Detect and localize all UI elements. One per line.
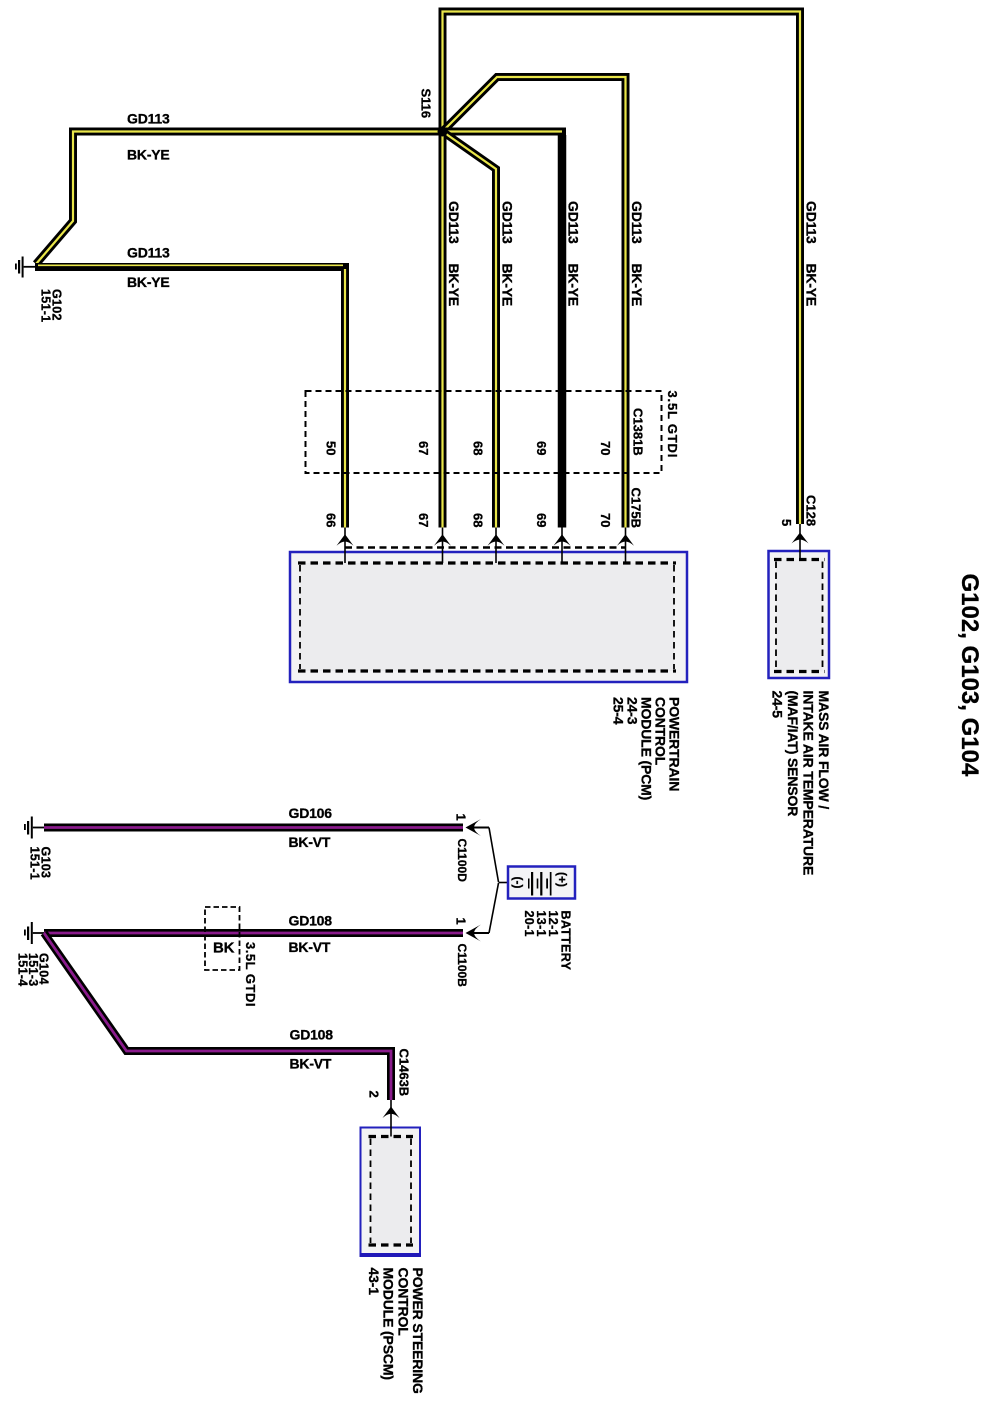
label G103 151-1 [28,847,53,880]
svg-text:(+): (+) [555,872,569,887]
label POWERTRAIN CONTROL MODULE (PCM) 24-3 25-4 [611,697,683,800]
svg-text:GD113: GD113 [446,201,462,244]
label G104 151-3 151-4 [16,953,51,986]
PSCM module box [360,1128,421,1257]
PCM lead pin 69 [561,528,563,564]
svg-text:3.5L GTDI: 3.5L GTDI [243,942,258,1007]
PCM lead pin 68 [495,528,497,564]
PCM lead pin 67 [442,528,444,564]
svg-text:BK-YE: BK-YE [566,264,582,307]
wire GD106 from G103 to battery C1100D [44,824,463,832]
arrow into PCM pin 70 [617,534,634,546]
svg-text:(MAF/IAT) SENSOR: (MAF/IAT) SENSOR [785,691,801,817]
arrow into PSCM pin 2 [383,1107,400,1119]
wire GD113 from S116 down to C1381B pin 67 [439,132,447,528]
battery plate short 2 [537,879,539,889]
PCM lead pin 70 [625,528,627,564]
svg-text:C1100B: C1100B [455,944,469,988]
svg-text:151-1: 151-1 [28,847,42,880]
svg-text:BK-VT: BK-VT [290,1056,332,1072]
svg-text:C128: C128 [804,495,819,526]
ground G103 [24,817,45,839]
label GD113 BK-YE on wire to pin 68 [500,201,516,306]
svg-text:67: 67 [416,513,431,527]
svg-text:G102, G103, G104: G102, G103, G104 [956,574,983,777]
svg-text:70: 70 [598,441,613,455]
svg-text:BK-VT: BK-VT [289,834,331,850]
svg-text:GD108: GD108 [289,913,333,929]
svg-text:2: 2 [367,1091,382,1098]
svg-text:69: 69 [534,441,549,455]
label MASS AIR FLOW / INTAKE AIR TEMPERATURE (MAF/IAT) SENSOR 24-5 [770,691,833,876]
svg-text:5: 5 [779,519,794,526]
battery plate short 3 [546,879,548,889]
label G102 151-1 [39,289,64,322]
svg-text:BK-YE: BK-YE [500,264,516,307]
arrow into PCM pin 68 [488,534,505,546]
svg-text:1: 1 [454,814,469,821]
svg-text:67: 67 [416,441,431,455]
svg-text:151-1: 151-1 [39,289,53,322]
wire GD113 from splice S116 up and over to MAF sensor [443,12,801,525]
arrow into C1100B [466,925,482,942]
svg-text:S116: S116 [419,89,434,119]
svg-text:70: 70 [598,513,613,527]
battery lead stub [499,882,509,884]
lead C1100D to battery [471,828,499,883]
svg-text:MASS AIR FLOW /: MASS AIR FLOW / [816,691,832,810]
svg-text:43-1: 43-1 [366,1268,382,1296]
svg-text:GD113: GD113 [127,245,170,261]
connector C1381B dashed box (3.5L GTDI) [306,391,662,473]
arrow into C1100D [466,819,482,836]
svg-text:GD113: GD113 [127,111,170,127]
label POWER STEERING CONTROL MODULE (PSCM) 43-1 [366,1268,426,1395]
wire GD108 from G104 to PSCM C1463B [44,933,391,1100]
PSCM lead [390,1100,392,1137]
svg-text:BK-YE: BK-YE [127,274,170,290]
svg-text:50: 50 [324,441,339,455]
label GD113 BK-YE on wire to pin 70 [629,201,645,306]
wire GD108 from G104 to battery C1100B [44,929,463,937]
svg-text:C1381B: C1381B [631,408,646,456]
PCM module box [290,552,687,682]
svg-text:INTAKE AIR TEMPERATURE: INTAKE AIR TEMPERATURE [801,691,817,876]
battery plate short 1 [528,879,530,889]
svg-text:151-4: 151-4 [16,953,30,986]
battery plate long 3 [550,872,552,896]
MAF connector C128 lead [799,524,801,560]
ground G102 [15,257,36,278]
svg-text:C1100D: C1100D [455,839,469,883]
connector C175B dashed line above PCM [345,546,626,548]
label GD113 BK-YE on wire to pin 69 [566,201,582,306]
svg-text:BK-VT: BK-VT [289,939,331,955]
svg-text:GD113: GD113 [804,201,820,244]
svg-text:(-): (-) [511,877,525,889]
ground G104 [24,922,45,944]
svg-text:BK-YE: BK-YE [629,264,645,307]
PCM lead pin 66 [344,528,346,564]
MAF sensor box [769,551,830,678]
svg-text:25-4: 25-4 [611,697,627,725]
arrow into PCM pin 66 [337,534,354,546]
svg-text:GD108: GD108 [290,1027,334,1043]
svg-text:3.5L GTDI: 3.5L GTDI [665,391,680,459]
battery plate long 1 [531,872,533,896]
label GD113 BK-YE on wire to pin 67 [446,201,462,306]
lead C1100B to battery [471,883,499,933]
splice S116 [438,127,448,137]
arrow into PCM pin 67 [434,534,451,546]
svg-text:1: 1 [454,918,469,925]
svg-text:68: 68 [471,513,486,527]
svg-text:CONTROL: CONTROL [396,1268,412,1337]
wire GD113 from ground G102 up to splice S116 [36,132,443,265]
battery box [508,867,575,899]
svg-text:C1463B: C1463B [397,1049,412,1097]
svg-text:66: 66 [324,513,339,527]
wire GD113 from S116 to C1381B pin 70 [443,77,626,528]
svg-text:BK: BK [213,940,235,957]
arrow into MAF pin 5 [792,533,809,544]
svg-text:GD113: GD113 [500,201,516,244]
label GD113 BK-YE on wire to MAF [804,201,820,306]
svg-text:GD113: GD113 [629,201,645,244]
svg-text:24-5: 24-5 [770,691,786,719]
battery plate long 2 [540,872,542,896]
svg-text:GD106: GD106 [289,805,333,821]
svg-text:69: 69 [534,513,549,527]
arrow into PCM pin 69 [554,534,571,546]
svg-text:BK-YE: BK-YE [127,147,170,163]
dashed box BK (3.5L GTDI splice note) [205,907,240,970]
label BATTERY 12-1 13-1 20-1 [522,911,573,971]
svg-text:68: 68 [471,441,486,455]
svg-text:BK-YE: BK-YE [446,264,462,307]
svg-text:C175B: C175B [629,488,644,528]
svg-text:GD113: GD113 [566,201,582,244]
wire GD113 from S116 to C1381B pin 68 [443,132,497,528]
svg-text:BK-YE: BK-YE [804,264,820,307]
wire GD113 from S116 to C1381B pin 69 [443,132,563,528]
svg-text:20-1: 20-1 [522,911,536,937]
wire GD113 from ground G102 to PCM pin 66 [35,265,345,527]
